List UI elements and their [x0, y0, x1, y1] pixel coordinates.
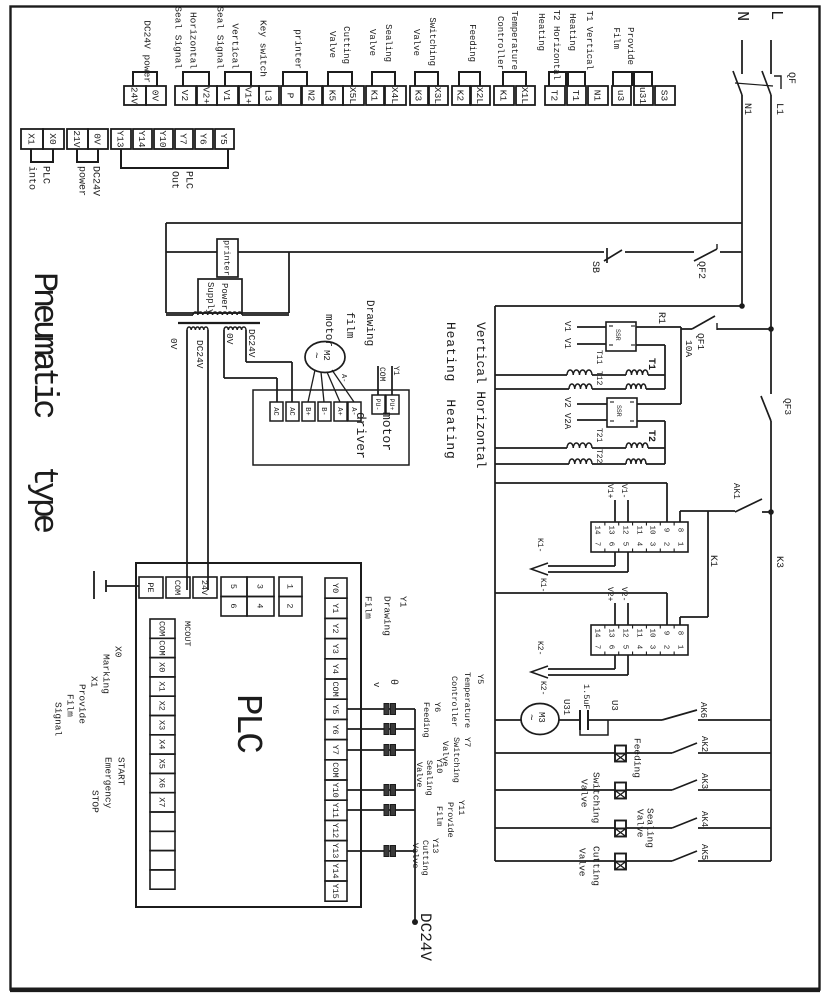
svg-text:2: 2: [661, 542, 669, 547]
svg-text:Seal Signal: Seal Signal: [215, 6, 226, 69]
svg-text:N2: N2: [306, 90, 317, 102]
svg-text:START: START: [116, 757, 127, 786]
svg-text:X3: X3: [156, 720, 166, 730]
svg-text:X1: X1: [156, 681, 166, 691]
svg-text:V1: V1: [562, 338, 572, 349]
svg-text:K5: K5: [327, 90, 338, 102]
svg-text:Film: Film: [434, 806, 444, 826]
svg-text:AK3: AK3: [699, 773, 709, 789]
svg-text:AK1: AK1: [731, 483, 741, 499]
svg-text:θ: θ: [387, 679, 399, 685]
svg-text:K3: K3: [773, 556, 784, 568]
svg-text:Y7: Y7: [178, 133, 189, 144]
svg-text:u3: u3: [615, 90, 626, 102]
svg-text:Out: Out: [168, 171, 179, 189]
svg-text:1: 1: [675, 542, 683, 547]
svg-text:1: 1: [284, 584, 294, 589]
svg-text:Cutting: Cutting: [591, 846, 602, 886]
svg-text:Feeding: Feeding: [467, 24, 477, 62]
svg-text:T21: T21: [594, 428, 603, 443]
svg-text:Y10: Y10: [330, 782, 340, 797]
svg-text:U31: U31: [561, 699, 571, 715]
svg-text:AC: AC: [287, 407, 295, 415]
svg-text:X5: X5: [156, 759, 166, 769]
svg-text:M3: M3: [536, 712, 546, 723]
svg-text:DC24V: DC24V: [246, 329, 257, 358]
svg-text:V2-: V2-: [619, 587, 628, 601]
svg-text:Y13: Y13: [430, 838, 440, 853]
svg-text:V2+: V2+: [201, 87, 212, 104]
svg-text:Feeding: Feeding: [421, 702, 431, 738]
svg-text:8: 8: [675, 631, 683, 636]
svg-text:V1: V1: [221, 90, 232, 102]
svg-text:QF: QF: [785, 72, 796, 84]
svg-text:N1: N1: [592, 90, 603, 102]
svg-text:AK4: AK4: [699, 811, 709, 827]
svg-text:S3: S3: [659, 90, 670, 102]
svg-text:10: 10: [647, 525, 655, 535]
svg-text:T11: T11: [594, 350, 603, 365]
svg-text:Provide: Provide: [625, 27, 635, 65]
svg-text:Y0: Y0: [330, 583, 340, 593]
svg-text:K2-: K2-: [538, 681, 547, 695]
svg-text:film: film: [343, 312, 355, 339]
svg-text:Y11: Y11: [456, 800, 466, 815]
svg-text:Cutting: Cutting: [420, 840, 430, 876]
svg-text:Y3: Y3: [330, 644, 340, 654]
svg-text:Y6: Y6: [330, 724, 340, 734]
svg-text:T1: T1: [645, 358, 656, 370]
svg-text:B+: B+: [303, 407, 311, 415]
svg-text:Temperature: Temperature: [509, 11, 519, 70]
svg-text:COM: COM: [172, 580, 182, 595]
svg-text:QF3: QF3: [782, 398, 793, 415]
svg-text:X0: X0: [47, 133, 58, 145]
svg-text:Temperature: Temperature: [462, 672, 472, 728]
svg-text:~: ~: [524, 714, 536, 721]
svg-text:printer: printer: [221, 240, 231, 276]
svg-text:T2: T2: [549, 90, 560, 102]
svg-text:V1+: V1+: [605, 484, 614, 499]
svg-text:11: 11: [634, 628, 642, 638]
svg-text:Y13: Y13: [115, 130, 126, 147]
svg-text:Sealing: Sealing: [383, 24, 393, 62]
svg-text:Seal Signal: Seal Signal: [173, 6, 184, 69]
svg-text:motor: motor: [379, 412, 394, 451]
svg-text:L: L: [766, 10, 785, 20]
svg-text:K1-: K1-: [535, 538, 544, 552]
svg-text:4: 4: [634, 645, 642, 650]
svg-text:12: 12: [620, 525, 628, 534]
svg-text:AK5: AK5: [699, 844, 709, 860]
svg-text:Vertical: Vertical: [230, 23, 241, 69]
svg-text:1.5uF: 1.5uF: [581, 684, 591, 710]
svg-text:Film: Film: [363, 596, 374, 619]
svg-text:Switching: Switching: [427, 17, 437, 66]
svg-text:Heating: Heating: [536, 13, 546, 51]
svg-text:R1: R1: [655, 312, 666, 324]
svg-text:Y11: Y11: [330, 803, 340, 818]
svg-text:Vertical Horizontal: Vertical Horizontal: [473, 322, 488, 469]
svg-text:Valve: Valve: [327, 31, 337, 58]
svg-text:printer: printer: [293, 29, 304, 69]
svg-text:5: 5: [620, 542, 628, 547]
svg-text:2: 2: [661, 645, 669, 650]
svg-text:Horizontal: Horizontal: [188, 12, 199, 69]
svg-text:K1: K1: [369, 90, 380, 102]
svg-text:P: P: [285, 93, 296, 99]
svg-text:PLC: PLC: [39, 166, 50, 184]
svg-text:0V: 0V: [168, 338, 179, 350]
svg-text:X1: X1: [26, 133, 37, 145]
svg-text:AC: AC: [271, 407, 279, 415]
svg-text:7: 7: [592, 645, 600, 650]
svg-text:driver: driver: [353, 412, 368, 459]
svg-text:12: 12: [620, 628, 628, 637]
svg-text:QF2: QF2: [695, 261, 706, 279]
svg-text:0V: 0V: [224, 333, 235, 345]
svg-text:8: 8: [675, 528, 683, 533]
svg-text:T22: T22: [594, 449, 603, 464]
svg-text:T1: T1: [570, 90, 581, 102]
svg-text:Valve: Valve: [577, 848, 588, 877]
svg-text:Y6: Y6: [198, 133, 209, 145]
svg-text:DC24V: DC24V: [416, 913, 434, 961]
svg-text:AK6: AK6: [698, 702, 708, 718]
svg-text:5: 5: [228, 584, 238, 589]
svg-text:Drawing: Drawing: [363, 300, 375, 346]
svg-text:Y6: Y6: [432, 702, 442, 712]
svg-text:L1: L1: [773, 103, 784, 115]
svg-text:SSR: SSR: [614, 329, 621, 341]
svg-text:Supply: Supply: [205, 282, 215, 315]
svg-text:Y2: Y2: [330, 623, 340, 633]
svg-text:power: power: [75, 166, 86, 196]
svg-text:A-: A-: [339, 374, 347, 382]
svg-text:V2: V2: [562, 397, 572, 408]
svg-text:24V: 24V: [129, 87, 140, 104]
svg-text:PLC: PLC: [182, 171, 193, 189]
svg-text:X6: X6: [156, 778, 166, 788]
svg-text:Power: Power: [219, 283, 229, 310]
svg-text:K3: K3: [413, 90, 424, 102]
svg-text:A+: A+: [335, 407, 343, 415]
svg-text:B-: B-: [319, 407, 327, 415]
svg-text:6: 6: [606, 645, 614, 650]
svg-text:Valve: Valve: [411, 29, 421, 56]
svg-text:Y1: Y1: [398, 596, 409, 608]
svg-text:Emergency: Emergency: [103, 757, 114, 809]
svg-text:Valve: Valve: [635, 809, 646, 838]
svg-text:Switching: Switching: [591, 772, 602, 823]
svg-text:T2 Horizontal: T2 Horizontal: [551, 10, 561, 80]
svg-text:type: type: [24, 466, 62, 533]
svg-text:COM: COM: [330, 762, 340, 777]
svg-text:13: 13: [606, 628, 614, 638]
svg-text:Film: Film: [611, 27, 621, 49]
svg-text:T2: T2: [645, 430, 656, 442]
svg-text:V2+: V2+: [605, 587, 614, 602]
svg-text:Y5: Y5: [475, 674, 485, 684]
svg-text:10: 10: [647, 628, 655, 638]
svg-text:COM: COM: [156, 640, 166, 655]
svg-text:Y5: Y5: [218, 133, 229, 145]
svg-text:Controller: Controller: [495, 16, 505, 70]
svg-text:Cutting: Cutting: [341, 26, 351, 64]
svg-text:K2: K2: [455, 90, 466, 102]
svg-text:into: into: [25, 166, 37, 190]
svg-text:X1: X1: [89, 676, 100, 688]
svg-text:Y10: Y10: [434, 758, 444, 773]
svg-text:N: N: [732, 11, 751, 21]
svg-text:Y14: Y14: [330, 863, 340, 878]
svg-text:COM: COM: [330, 681, 340, 696]
svg-text:11: 11: [634, 525, 642, 535]
svg-text:PU-: PU-: [374, 399, 381, 411]
svg-text:M2: M2: [321, 350, 331, 361]
svg-text:4: 4: [634, 542, 642, 547]
svg-text:motor: motor: [322, 314, 334, 347]
svg-text:Provide: Provide: [77, 684, 88, 724]
svg-text:Valve: Valve: [367, 29, 377, 56]
svg-text:Y4: Y4: [330, 664, 340, 674]
svg-text:T12: T12: [594, 371, 603, 386]
svg-text:V1-: V1-: [619, 484, 628, 498]
svg-text:u31: u31: [637, 87, 648, 104]
svg-text:STOP: STOP: [90, 790, 101, 813]
svg-text:Heating Heating: Heating Heating: [443, 322, 458, 460]
svg-text:v: v: [371, 682, 381, 688]
svg-text:Heating: Heating: [567, 13, 577, 51]
svg-text:Valve: Valve: [414, 762, 424, 788]
svg-text:V1: V1: [562, 321, 572, 332]
svg-text:0V: 0V: [150, 90, 161, 102]
svg-text:DC24V power: DC24V power: [142, 20, 153, 83]
svg-text:Y12: Y12: [330, 823, 340, 838]
svg-text:9: 9: [661, 528, 669, 533]
svg-text:Y10: Y10: [157, 130, 168, 147]
svg-text:1: 1: [675, 645, 683, 650]
svg-text:K1: K1: [707, 555, 718, 567]
svg-text:Film: Film: [65, 694, 76, 717]
svg-text:Y7: Y7: [462, 737, 472, 747]
svg-text:Y1: Y1: [330, 603, 340, 613]
svg-text:21V: 21V: [71, 130, 82, 147]
svg-text:SSR: SSR: [615, 405, 622, 417]
svg-text:AK2: AK2: [699, 736, 709, 752]
svg-text:U3: U3: [609, 700, 619, 711]
svg-text:~: ~: [309, 352, 321, 359]
svg-text:Drawing: Drawing: [382, 596, 393, 636]
svg-text:X2: X2: [156, 701, 166, 711]
svg-text:Y13: Y13: [330, 843, 340, 858]
svg-text:Provide: Provide: [445, 802, 455, 838]
svg-text:X3L: X3L: [432, 87, 443, 104]
svg-text:Switching: Switching: [451, 737, 461, 783]
svg-text:6: 6: [606, 542, 614, 547]
svg-text:3: 3: [647, 542, 655, 547]
svg-text:Pneumatic: Pneumatic: [24, 272, 62, 417]
svg-text:K1: K1: [498, 90, 509, 102]
svg-text:X2L: X2L: [474, 87, 485, 104]
svg-text:Y15: Y15: [330, 883, 340, 898]
svg-text:Valve: Valve: [579, 779, 590, 808]
svg-text:PLC: PLC: [227, 694, 268, 753]
svg-text:5: 5: [620, 645, 628, 650]
svg-text:V2: V2: [179, 90, 190, 102]
svg-text:K2-: K2-: [535, 641, 544, 655]
svg-text:PU+: PU+: [388, 399, 395, 411]
svg-text:Feeding: Feeding: [632, 738, 643, 778]
svg-text:DC24V: DC24V: [89, 166, 100, 196]
svg-text:MCOUT: MCOUT: [182, 621, 192, 647]
svg-text:2: 2: [284, 603, 294, 608]
svg-text:Y1: Y1: [391, 366, 400, 376]
svg-text:4: 4: [254, 603, 264, 608]
svg-text:DC24V: DC24V: [194, 340, 205, 369]
svg-text:9: 9: [661, 631, 669, 636]
svg-text:7: 7: [592, 542, 600, 547]
svg-text:X4: X4: [156, 739, 166, 749]
svg-text:3: 3: [254, 584, 264, 589]
svg-text:X0: X0: [156, 662, 166, 672]
svg-text:COM: COM: [377, 367, 386, 382]
svg-text:Y14: Y14: [136, 130, 147, 147]
svg-text:X7: X7: [156, 797, 166, 807]
svg-text:3: 3: [647, 645, 655, 650]
svg-text:24V: 24V: [199, 580, 209, 596]
svg-text:Controller: Controller: [449, 676, 459, 727]
svg-text:Marking: Marking: [101, 654, 112, 694]
svg-text:V1+: V1+: [243, 87, 254, 104]
svg-text:Sealing: Sealing: [424, 760, 434, 796]
svg-text:X4L: X4L: [389, 87, 400, 104]
svg-text:Y7: Y7: [330, 745, 340, 755]
svg-text:SB: SB: [589, 261, 600, 273]
svg-text:V2A: V2A: [562, 413, 572, 430]
svg-text:K1-: K1-: [538, 578, 547, 592]
svg-text:Valve: Valve: [410, 843, 420, 869]
svg-text:13: 13: [606, 525, 614, 535]
svg-text:Key switch: Key switch: [258, 20, 269, 77]
svg-text:Signal: Signal: [53, 702, 64, 737]
svg-text:10A: 10A: [683, 340, 694, 357]
svg-text:T1 Vertical: T1 Vertical: [584, 11, 594, 70]
svg-text:6: 6: [228, 603, 238, 608]
svg-text:0V: 0V: [92, 133, 103, 145]
svg-text:COM: COM: [156, 621, 166, 636]
svg-text:X0: X0: [113, 646, 124, 658]
svg-text:PE: PE: [145, 582, 155, 592]
svg-text:X1L: X1L: [519, 87, 530, 104]
svg-text:14: 14: [592, 525, 600, 535]
svg-text:L3: L3: [263, 90, 274, 102]
svg-text:Y5: Y5: [330, 704, 340, 714]
svg-text:X5L: X5L: [347, 87, 358, 104]
svg-text:QF1: QF1: [695, 333, 706, 350]
svg-text:14: 14: [592, 628, 600, 638]
